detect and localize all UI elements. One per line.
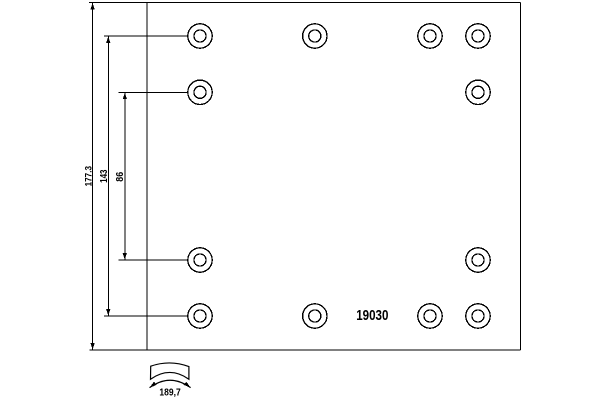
svg-text:143: 143: [99, 169, 110, 183]
lining outline top edge: [89, 2, 521, 4]
arrow 177.3 top: [91, 3, 95, 9]
svg-text:189,7: 189,7: [159, 388, 181, 399]
rivet hole row1 col D: [466, 24, 490, 48]
rivet hole row4 col A: [188, 304, 212, 328]
rivet hole row4 col B: [303, 304, 327, 328]
lining outline bottom edge: [90, 349, 521, 351]
lining outline left edge: [146, 3, 148, 351]
dimension line 143: [107, 36, 109, 316]
svg-text:19030: 19030: [356, 308, 388, 324]
rivet hole row1 col C: [418, 24, 442, 48]
arrow 177.3 bottom: [91, 343, 95, 349]
rivet hole row2 col A: [188, 80, 212, 104]
rivet hole row4 col C: [418, 304, 442, 328]
extension line row 3: [119, 259, 188, 261]
rivet hole row3 col D: [466, 248, 490, 272]
rivet hole row1 col B: [303, 24, 327, 48]
arrow 86 bottom: [123, 253, 127, 259]
extension line row 1: [104, 35, 188, 37]
arc arrow left: [149, 382, 156, 388]
svg-text:86: 86: [114, 172, 126, 182]
dimension line 177.3: [92, 3, 94, 351]
svg-text:177.3: 177.3: [83, 166, 94, 186]
arrow 143 top: [106, 37, 110, 43]
arc-length arrow arc: [150, 380, 191, 387]
rivet hole row1 col A: [188, 24, 212, 48]
dimension line 86: [124, 92, 126, 260]
rivet hole row2 col D: [466, 80, 490, 104]
rivet hole row3 col A: [188, 248, 212, 272]
extension line row 4: [104, 315, 188, 317]
lining outline right edge: [519, 3, 521, 351]
arrow 143 bottom: [106, 309, 110, 315]
extension line row 2: [119, 91, 188, 93]
curvature symbol band: [150, 363, 191, 388]
arc arrow right: [184, 382, 191, 388]
arrow 86 top: [123, 93, 127, 99]
rivet hole row4 col D: [466, 304, 490, 328]
